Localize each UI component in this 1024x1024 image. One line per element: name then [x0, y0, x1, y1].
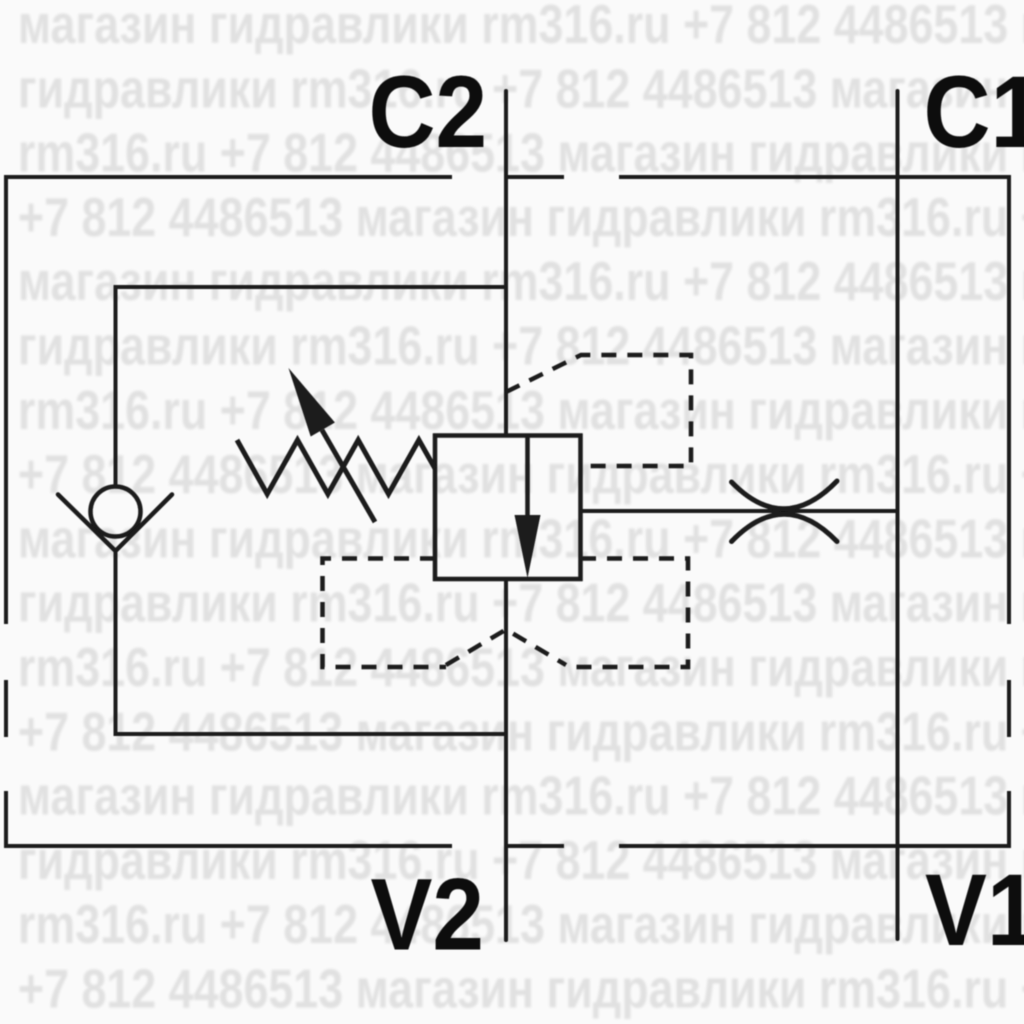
svg-text:магазин гидравлики rm316.ru +7: магазин гидравлики rm316.ru +7 812 44865… — [18, 765, 1024, 826]
svg-text:+7 812 4486513 магазин гидравл: +7 812 4486513 магазин гидравлики rm316.… — [18, 958, 1024, 1019]
svg-text:V2: V2 — [371, 857, 485, 971]
svg-text:rm316.ru +7 812 4486513 магази: rm316.ru +7 812 4486513 магазин гидравли… — [18, 122, 1024, 183]
svg-text:rm316.ru +7 812 4486513 магази: rm316.ru +7 812 4486513 магазин гидравли… — [18, 637, 1024, 698]
svg-text:магазин гидравлики rm316.ru +7: магазин гидравлики rm316.ru +7 812 44865… — [18, 251, 1024, 312]
svg-text:+7 812 4486513 магазин гидравл: +7 812 4486513 магазин гидравлики rm316.… — [18, 187, 1024, 248]
svg-text:магазин гидравлики rm316.ru +7: магазин гидравлики rm316.ru +7 812 44865… — [18, 0, 1024, 55]
svg-text:rm316.ru +7 812 4486513 магази: rm316.ru +7 812 4486513 магазин гидравли… — [18, 894, 1024, 955]
svg-text:гидравлики rm316.ru +7 812 448: гидравлики rm316.ru +7 812 4486513 магаз… — [18, 315, 1024, 376]
svg-text:V1: V1 — [925, 853, 1024, 967]
svg-text:гидравлики rm316.ru +7 812 448: гидравлики rm316.ru +7 812 4486513 магаз… — [18, 830, 1024, 891]
svg-text:гидравлики rm316.ru +7 812 448: гидравлики rm316.ru +7 812 4486513 магаз… — [18, 572, 1024, 633]
svg-text:C1: C1 — [924, 55, 1024, 169]
svg-text:C2: C2 — [369, 55, 488, 169]
svg-text:+7 812 4486513 магазин гидравл: +7 812 4486513 магазин гидравлики rm316.… — [18, 701, 1024, 762]
svg-text:гидравлики rm316.ru +7 812 448: гидравлики rm316.ru +7 812 4486513 магаз… — [18, 58, 1024, 119]
svg-text:rm316.ru +7 812 4486513 магази: rm316.ru +7 812 4486513 магазин гидравли… — [18, 379, 1024, 440]
